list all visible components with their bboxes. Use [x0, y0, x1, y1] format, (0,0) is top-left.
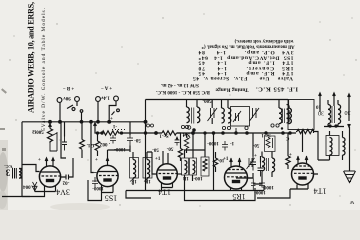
tube V3 1T4 envelope	[157, 164, 178, 185]
label Sc-1 a	[159, 133, 169, 138]
svg-text:+ A −: + A −	[101, 85, 112, 90]
svg-text:500-: 500-	[202, 98, 212, 103]
gang cap arrow 1	[233, 111, 241, 122]
wire: V3 plate right	[177, 173, 182, 175]
svg-text:Tuning Range: Tuning Range	[215, 87, 249, 93]
antenna coil core	[332, 106, 335, 123]
wire: R6	[186, 133, 188, 153]
resistor R5	[178, 149, 182, 158]
junction x91	[90, 121, 93, 124]
wire: U loop under 1R5	[185, 181, 256, 201]
wire: pot top to bus arrow	[49, 122, 52, 129]
label .02	[62, 180, 69, 185]
label 50- right	[252, 142, 259, 147]
tube V2 grid dashes	[99, 175, 118, 177]
svg-text:5Valve D/W. Console and Table: 5Valve D/W. Console and Table Models.	[41, 7, 47, 131]
label 1S5	[105, 194, 117, 203]
label 50- left	[134, 137, 141, 142]
svg-text:1S5 Det.AVC.Aud.amp 1-4 64: 1S5 Det.AVC.Aud.amp 1-4 64*	[198, 54, 293, 60]
osc coil L1a	[187, 107, 190, 123]
battery B terminal -	[57, 98, 62, 103]
wire: mid rail left part	[94, 122, 102, 133]
tube V5 top pins	[298, 156, 307, 164]
svg-text:S/W 13 m. - 42 m.: S/W 13 m. - 42 m.	[160, 82, 199, 87]
svg-text:1T4: 1T4	[314, 187, 327, 196]
label B polarity	[63, 85, 75, 90]
svg-text:1-: 1-	[230, 140, 235, 145]
arrow below antenna	[348, 124, 351, 127]
wire: B+ drop	[76, 101, 78, 106]
tube V4 pin arrows	[230, 159, 241, 162]
stub L2 to rail	[235, 128, 237, 133]
osc coil L2a	[222, 108, 225, 123]
antenna coil A winding	[328, 105, 331, 124]
RF coil winding	[330, 138, 333, 156]
plus Ca	[254, 154, 257, 159]
lead dots R4	[101, 132, 103, 134]
tube V3 plate box	[163, 176, 171, 179]
svg-text:-02: -02	[62, 180, 69, 185]
resistor R3	[95, 141, 100, 151]
tube V2 bottom pins	[88, 180, 113, 201]
svg-text:+1: +1	[223, 157, 229, 162]
tube V4 bottom pins	[231, 188, 242, 191]
IFT2 primary winding	[185, 161, 187, 174]
wire: IFT2 leads	[185, 133, 206, 181]
terminal circle osc	[187, 126, 191, 130]
wire: transformer to border	[19, 169, 22, 179]
label 1T4	[158, 188, 171, 197]
svg-text:1F: 1F	[145, 178, 151, 183]
pot wiper	[50, 132, 57, 151]
svg-text:.004: .004	[23, 184, 32, 189]
antenna coil B winding	[338, 105, 341, 124]
tube V5 pin arrows	[297, 157, 308, 160]
svg-text:Sс-1: Sс-1	[159, 133, 169, 138]
tube V4 plate line	[226, 172, 246, 174]
wire: V5 plate to RF coil	[314, 160, 330, 174]
svg-text:Valve Use F3.v. Scree: Valve Use F3.v. Screen v. 45	[193, 75, 293, 81]
tube V5 upper dashes	[295, 165, 310, 167]
cap 1000 rf	[259, 181, 265, 188]
wire: bottom-left rail	[2, 196, 30, 198]
padder coil L3a	[279, 108, 282, 124]
svg-text:+1: +1	[155, 157, 161, 162]
tube V1 top pins	[47, 158, 54, 167]
terminal circles L1	[181, 125, 184, 128]
svg-text:-1: -1	[112, 123, 117, 128]
cap .002	[110, 135, 116, 144]
wire: top rail drop at x=145.5	[145, 100, 147, 191]
svg-text:with efficiency volt meters.): with efficiency volt meters.)	[234, 38, 293, 43]
svg-text:3V4 O.P. amp. 1-4: 3V4 O.P. amp. 1-4 84	[198, 49, 293, 55]
svg-text:50-: 50-	[134, 137, 141, 142]
gang capacitor box section 1	[231, 107, 250, 127]
L3 core	[283, 109, 285, 124]
cap 1000 at V2 grid	[92, 173, 98, 188]
junction top-rail drop/bus	[144, 120, 147, 123]
scan smudges	[0, 88, 7, 151]
junction L2	[235, 132, 237, 134]
label 1B	[182, 175, 189, 180]
svg-text:3: 3	[5, 168, 10, 178]
junction IFT2	[192, 132, 195, 135]
resistor R2	[80, 140, 85, 150]
on-off switch S2	[109, 101, 116, 113]
svg-text:AIRADIO WEBB, 10, and ERRS,: AIRADIO WEBB, 10, and ERRS,	[27, 2, 36, 113]
resistor Rsc horizontal	[162, 131, 176, 135]
svg-text:1R5: 1R5	[232, 192, 245, 201]
junction S1/bus	[80, 121, 83, 124]
output transformer core	[13, 168, 17, 179]
wire: B- down to bus	[59, 102, 61, 121]
dotted marks under bus	[112, 129, 125, 131]
plus mark V2 filament	[95, 158, 98, 163]
label 90v	[63, 95, 71, 100]
tube V1 pin arrows	[45, 158, 54, 161]
box resistor	[266, 138, 273, 149]
IFT1 primary box	[130, 158, 139, 179]
svg-text:50-: 50-	[152, 147, 159, 152]
ground symbol	[344, 171, 356, 183]
svg-text:1T4 R.F. amp 1-4: 1T4 R.F. amp 1-4 45	[198, 70, 293, 76]
IFT2 primary box	[182, 158, 189, 175]
RF coil box	[326, 136, 339, 156]
cap at 177	[175, 137, 180, 146]
tube V5 plate line	[293, 169, 312, 171]
label C	[285, 135, 289, 140]
tube V3 bottom pins	[162, 183, 173, 191]
svg-text:1F: 1F	[131, 178, 137, 183]
cap 1-	[222, 141, 228, 151]
wire: B- feed down	[61, 122, 66, 158]
svg-text:3V4: 3V4	[56, 188, 70, 197]
svg-text:+: +	[289, 153, 292, 158]
trimmer arrow low	[247, 158, 255, 169]
stub terminal to rail	[193, 130, 195, 134]
tube V2 plate box	[103, 178, 111, 181]
plus mark V1 filament	[38, 158, 41, 163]
label 1F a	[131, 178, 137, 183]
tube V2 pin arrow	[106, 158, 109, 161]
wire: mid rail right end up	[313, 130, 315, 133]
wire: R7 leads	[215, 152, 217, 172]
label 1T4 rf	[314, 187, 327, 196]
wire: R2 leads	[81, 122, 83, 158]
wire: Rsc right lead down	[177, 133, 181, 146]
svg-text:w: w	[349, 199, 354, 205]
svg-text:1S5: 1S5	[105, 194, 117, 203]
label R3 ohm	[86, 142, 95, 147]
wire: x91 drop	[91, 122, 94, 173]
volume pot 500ohm	[47, 129, 52, 144]
svg-text:100-: 100-	[193, 175, 203, 180]
IFT2 secondary winding	[193, 161, 195, 174]
junction V4 rail	[212, 132, 214, 134]
plus mark V4	[223, 157, 229, 162]
loop antenna box	[288, 100, 314, 130]
wire: ground stem	[349, 127, 351, 171]
svg-text:+: +	[38, 158, 41, 163]
trimmer cap CT1	[208, 108, 218, 121]
svg-text:30: 30	[345, 109, 351, 115]
label 1F b	[145, 178, 151, 183]
tube V4 plate box	[232, 180, 240, 183]
svg-text:B/C 550 K.C. - 1600 K.C.: B/C 550 K.C. - 1600 K.C.	[155, 89, 210, 94]
cap 1000 bottom	[251, 179, 256, 191]
svg-text:1R5 Convert. 1-4: 1R5 Convert. 1-4 70	[198, 65, 293, 71]
label 1.4v	[101, 95, 110, 100]
label 30 b	[345, 109, 351, 115]
terminal circles gang	[245, 126, 248, 129]
trimmer cap CT2	[250, 108, 260, 121]
tube V1 grid dashes	[42, 175, 61, 177]
cap 1000 mid	[127, 135, 133, 146]
wire: V1 plate to cap	[61, 158, 73, 177]
label 500- top	[202, 98, 212, 103]
wire: osc to V4 region	[236, 177, 262, 184]
resistor R4 horizontal	[102, 131, 122, 135]
wire: L1 ends	[187, 100, 198, 108]
svg-text:1B: 1B	[182, 175, 189, 180]
tube V1 plate box	[46, 179, 54, 182]
tube V2 plate line	[98, 171, 117, 173]
wire: V3 grid left	[152, 152, 157, 174]
choke coil A	[262, 157, 265, 171]
antenna lead 2 arrow	[333, 93, 336, 106]
wire: coils bottoms	[324, 100, 344, 127]
label 1R5	[232, 192, 245, 201]
antenna lead 1 arrow	[319, 93, 322, 112]
IFT1 secondary box	[143, 158, 152, 179]
label 3V4	[56, 188, 70, 197]
svg-text:1T4: 1T4	[158, 188, 171, 197]
wire: choke leads	[262, 152, 272, 178]
label 10-	[217, 157, 224, 162]
plus mark V3	[155, 157, 161, 162]
wire: R5 leads	[180, 146, 182, 162]
label -1	[112, 123, 117, 128]
diode arrows at grid	[32, 182, 38, 191]
wire: R10 leads	[296, 132, 318, 161]
IFT2 secondary box	[190, 158, 197, 175]
wire: R9 leads	[287, 133, 289, 169]
stray mark w	[349, 199, 354, 205]
resistor R10 horizontal	[297, 129, 314, 133]
IFT1 primary winding	[133, 160, 136, 178]
antenna lead 3 arrow	[348, 94, 351, 121]
tube V5 bottom pins	[290, 184, 308, 189]
wire: A- down	[97, 101, 99, 121]
label 3 ohm speaker	[5, 168, 10, 178]
tube V2 1S5 envelope	[97, 165, 118, 186]
resistor R7	[213, 158, 217, 167]
wire: C-av to bus	[64, 122, 66, 137]
label 1000 mid	[114, 146, 126, 151]
junction A/bus	[97, 121, 100, 124]
osc coil L2b	[228, 108, 231, 123]
tube V4 grid dashes	[227, 176, 246, 178]
IFT2 box resistor	[203, 159, 207, 171]
plus mark S2	[110, 117, 113, 122]
tube V4 upper dashes	[228, 169, 243, 171]
electrolytic Cb	[258, 163, 264, 177]
wire: RF coil leads	[330, 131, 343, 160]
svg-text:1000-: 1000-	[207, 140, 219, 145]
vertical rail left of V4	[213, 133, 215, 191]
label 500 ohm	[32, 129, 44, 134]
scan speckles	[9, 13, 356, 206]
wire: B+ top rail	[146, 99, 289, 101]
on-off switch S1	[72, 108, 75, 111]
terminal circles at rail drop	[147, 124, 150, 127]
junction dot x156	[155, 132, 158, 135]
osc coil core	[192, 108, 194, 124]
tube V2 top pin	[107, 150, 109, 165]
label 1000- bottom	[254, 189, 266, 194]
wire: bottom right rail	[257, 189, 290, 198]
wire: CT1 leads	[211, 100, 213, 125]
tube V5 grid dashes	[294, 172, 313, 174]
label 10	[316, 104, 322, 109]
battery B terminal +	[75, 97, 80, 102]
wire: IFT1 leads	[133, 152, 152, 185]
svg-text:50-: 50-	[166, 146, 173, 151]
label 30 a	[318, 110, 324, 116]
tube V5 1T4 envelope	[292, 163, 314, 185]
junction B/bus	[59, 120, 62, 123]
label V.C.	[4, 164, 12, 169]
svg-text:30: 30	[318, 110, 324, 116]
tube V3 top pins	[163, 151, 168, 164]
svg-text:500Ω: 500Ω	[32, 129, 44, 134]
loop antenna winding	[287, 105, 290, 123]
resistor R9	[286, 156, 290, 165]
coupling cap .02	[66, 175, 69, 180]
junction pot/bus	[49, 120, 52, 123]
voltage table (printed upside-down)	[155, 38, 298, 94]
svg-text:C: C	[285, 135, 289, 140]
wire: loop box bottom to V5 grid	[302, 130, 304, 152]
wire: border top feed	[22, 165, 40, 172]
svg-text:I.F. 455 K.C.: I.F. 455 K.C.	[256, 86, 298, 93]
svg-text:. 002: . 002	[100, 141, 111, 146]
tube V5 plate box	[298, 176, 306, 179]
wire: left border down	[21, 122, 23, 197]
choke coil B	[272, 158, 275, 172]
junction dots mid rail	[222, 132, 224, 134]
electrolytic Ca	[250, 157, 256, 171]
wire: left main bus	[22, 121, 146, 123]
junction osc	[193, 129, 195, 131]
label 50- upper	[152, 147, 159, 152]
wire: L3 tops	[279, 100, 289, 109]
wire: R3 leads	[97, 133, 99, 156]
junction dot S2/bus	[108, 120, 111, 123]
wire: S1 to bus	[81, 112, 83, 122]
label A polarity	[101, 85, 112, 90]
label 1000 grid	[92, 185, 104, 190]
svg-text:+: +	[95, 158, 98, 163]
output transformer winding	[19, 169, 21, 179]
IFT2 resistor box	[201, 157, 209, 176]
IFT1 trimmer arrows	[130, 177, 150, 182]
cap C-av	[62, 137, 67, 151]
tube V1 plate line	[41, 171, 60, 173]
label .002	[100, 141, 111, 146]
label 1-	[230, 140, 235, 145]
svg-text:1000-: 1000-	[262, 184, 274, 189]
svg-text:90v: 90v	[63, 95, 71, 100]
padder coil L3b	[289, 108, 292, 124]
wire: bottom mid rail	[126, 186, 264, 198]
wire: cap1000 to bus	[108, 122, 131, 152]
wire: L2 ends	[222, 100, 229, 109]
svg-text:50-: 50-	[252, 142, 259, 147]
junction top-rail drop/mid-rail	[144, 132, 146, 134]
tube V3 grid dashes	[159, 173, 178, 175]
battery A terminal -	[96, 97, 101, 102]
resistor R6 pot curve	[183, 134, 190, 148]
label 50- mid	[166, 146, 173, 151]
svg-text:+ B −: + B −	[63, 85, 75, 90]
plus mark V5	[289, 153, 292, 158]
tube V1 bottom pins	[22, 186, 56, 197]
label 1000- rf	[262, 184, 274, 189]
junction dots antenna	[329, 125, 331, 127]
label 100-	[193, 175, 203, 180]
IFT1 secondary winding	[147, 160, 150, 178]
label Sc-1 b	[182, 132, 190, 137]
wire: electrolytics	[248, 133, 261, 178]
svg-text:1T4 I.F. amp 1-4: 1T4 I.F. amp 1-4 45	[198, 60, 293, 66]
svg-text:All measurements Volt/Rat. m.: All measurements Volt/Rat. m. No signal.…	[201, 44, 295, 49]
title: vertical model name	[27, 2, 48, 131]
label Sc-1 right	[261, 132, 271, 137]
svg-text:Ω1.: Ω1.	[86, 142, 95, 147]
label .004	[23, 184, 32, 189]
tube V4 top pins	[231, 158, 240, 167]
label 1000- osc	[207, 140, 219, 145]
osc coil L1b	[197, 107, 200, 123]
wire: S2 to bus	[108, 113, 110, 122]
tube V4 1R5 envelope	[225, 166, 248, 189]
tube V1 3V4 envelope	[39, 166, 60, 187]
svg-text:1.4v: 1.4v	[101, 95, 110, 100]
terminal circles L2	[222, 126, 225, 129]
wire: mid rail center	[122, 132, 297, 134]
battery A terminal +	[114, 96, 119, 101]
junction R3 top	[96, 132, 98, 134]
choke core	[267, 158, 269, 171]
boxed RC at 270	[265, 136, 276, 152]
RF coil winding b	[343, 138, 346, 156]
tube V3 plate line	[158, 169, 176, 171]
